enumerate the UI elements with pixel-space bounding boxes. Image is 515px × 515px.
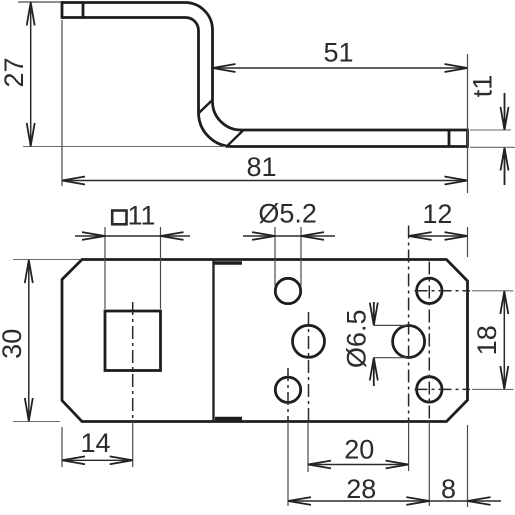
dim 20: line	[308, 464, 409, 466]
dim 51: line	[213, 67, 468, 69]
right end cap	[466, 129, 469, 148]
centerline: hole bottom-left vertical	[287, 368, 289, 421]
dim 30: line	[28, 260, 30, 422]
dim 8: arrow outside-right	[468, 497, 491, 505]
centerline: hole middle-right vertical	[408, 226, 410, 422]
hole top-left Ø5.2	[275, 278, 300, 303]
centerline ext: middle-left to dim 20	[307, 422, 309, 473]
svg-text:8: 8	[441, 474, 456, 504]
hole middle-left Ø6.5	[293, 325, 325, 357]
dim square 11: line	[75, 235, 190, 237]
dim t1: upper line + arrow down	[501, 93, 509, 130]
bend mark upper	[198, 100, 213, 114]
dim 30: extension bottom	[13, 421, 60, 423]
dim 14: extension left	[61, 427, 63, 467]
dim 81: extension left	[61, 20, 63, 186]
svg-text:20: 20	[344, 435, 374, 465]
centerline: hole bottom-right horizontal	[415, 388, 471, 390]
centerline: hole middle-left vertical	[308, 312, 310, 421]
dim square 11: square symbol	[112, 211, 126, 225]
centerline: hole top-right horizontal	[415, 290, 471, 292]
svg-text:30: 30	[0, 329, 27, 359]
dim Ø6.5: lower line + arrow up	[370, 358, 378, 386]
svg-text:28: 28	[346, 474, 376, 504]
dim Ø5.2: extensions	[275, 227, 301, 287]
dim 27: arrow down	[27, 123, 35, 146]
dim 8: extension right	[467, 425, 469, 507]
dim 18: arrow down	[500, 366, 508, 389]
dim t1: extension top	[470, 129, 511, 131]
dim square 11: extensions	[105, 227, 161, 309]
svg-text:27: 27	[0, 57, 29, 87]
plate outline with chamfered corners	[62, 260, 468, 422]
dim 27: extension bottom	[23, 146, 226, 148]
hole top-right Ø5.2	[417, 278, 442, 303]
dim 28: arrow left	[288, 497, 311, 505]
dim 18: line	[503, 291, 505, 390]
dim square 11: arrow outside-right	[161, 232, 184, 240]
dim Ø5.2: arrow outside-right	[301, 232, 324, 240]
dim 27: extension top	[18, 1, 61, 3]
dim 30: arrow down	[25, 398, 33, 421]
dim 30: extension top	[13, 259, 80, 261]
svg-text:11: 11	[128, 200, 156, 230]
centerline ext: square to dim 14	[132, 422, 134, 468]
dim 30: arrow up	[25, 260, 33, 283]
centerline ext: bottom-left to dim 28	[287, 422, 289, 507]
dim 14: arrow right	[110, 456, 133, 464]
dim 51: arrow left	[213, 64, 236, 72]
part outline: bottom face chain (flange bottom, inner top bend, left face, outer bottom bend, bottom-run bottom face)	[62, 18, 468, 147]
dim Ø6.5: extensions	[374, 325, 407, 357]
svg-text:18: 18	[472, 325, 502, 355]
hole bottom-right Ø5.2	[417, 377, 442, 402]
svg-text:t1: t1	[468, 75, 498, 98]
dim 14: line	[62, 459, 133, 461]
bend mark lower	[226, 130, 244, 147]
centerline: right hole pair vertical	[428, 262, 430, 422]
right end inner line	[448, 130, 451, 147]
dim 12: arrow left	[409, 232, 432, 240]
dim 18: arrow up	[500, 291, 508, 314]
bend tangent bar bottom	[215, 417, 242, 421]
dim 81: arrow right	[445, 177, 468, 185]
dim 12: arrow right	[445, 232, 468, 240]
svg-text:Ø5.2: Ø5.2	[258, 199, 317, 229]
dim Ø5.2: line	[243, 235, 335, 237]
centerline: square hole vertical	[132, 302, 134, 421]
hole bottom-left Ø5.2	[275, 377, 300, 402]
dim t1: lower line + arrow up	[501, 148, 509, 185]
dim 27: line	[30, 2, 32, 147]
dim 51: arrow right	[445, 64, 468, 72]
shared right extension line	[467, 54, 469, 193]
dim 8: line	[429, 500, 501, 502]
dim 27: arrow up	[27, 3, 35, 26]
dim Ø6.5: upper line + arrow down	[370, 302, 378, 325]
dim 18: extensions	[472, 291, 514, 390]
centerline ext: right holes to dim 28/8	[428, 422, 430, 507]
bend tangent bar top	[215, 261, 243, 264]
dim t1: extension bottom	[470, 146, 515, 148]
dim 81: line	[62, 180, 468, 182]
dim 12: line	[409, 235, 468, 237]
dim Ø5.2: arrow outside-left	[252, 232, 275, 240]
dim square 11: arrow outside-left	[82, 232, 105, 240]
left end inner line	[82, 3, 85, 18]
hole middle-right Ø6.5	[393, 326, 425, 358]
dim 12: extension right	[467, 227, 469, 257]
dim 20: arrow left	[308, 461, 331, 469]
centerline ext: middle-right to dim 20	[408, 422, 410, 472]
svg-text:12: 12	[422, 199, 452, 229]
square hole 11	[105, 311, 161, 371]
svg-text:14: 14	[80, 428, 110, 458]
svg-text:81: 81	[246, 152, 276, 182]
bend line vertical	[212, 260, 214, 422]
dim 20: arrow right	[386, 461, 409, 469]
part outline: top face chain (flange top, outer top bend, right face, inner bottom bend, bottom-run top face)	[62, 3, 468, 131]
svg-text:Ø6.5: Ø6.5	[341, 310, 371, 369]
svg-text:51: 51	[323, 38, 353, 68]
dim 28: arrow right	[406, 497, 429, 505]
dim 28: line	[288, 500, 429, 502]
dim 81: arrow left	[62, 177, 85, 185]
left end cap	[61, 1, 64, 19]
dim 14: arrow left	[62, 456, 85, 464]
